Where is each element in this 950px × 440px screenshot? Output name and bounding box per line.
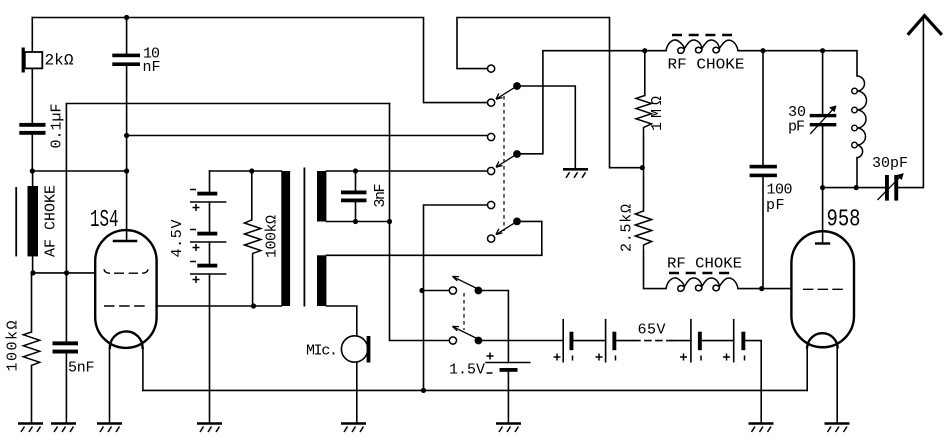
svg-text:5nF: 5nF xyxy=(68,360,95,377)
ground 100k left xyxy=(18,424,43,433)
wire secondary top rail to switch S2b xyxy=(326,170,487,172)
wire secondary top bottom rail xyxy=(326,221,389,223)
svg-text:pF: pF xyxy=(766,197,785,214)
svg-text:100kΩ: 100kΩ xyxy=(5,321,22,372)
switch gang dashed link xyxy=(503,96,505,231)
node E junction xyxy=(124,168,129,173)
battery 1.5V xyxy=(485,353,530,374)
svg-text:pF: pF xyxy=(788,119,805,136)
battery 65V cell1 xyxy=(554,319,574,363)
node bottom rail junction xyxy=(421,388,426,393)
wire 958 filament left leg xyxy=(806,348,808,391)
microphone xyxy=(341,336,370,363)
switch S1 contact a xyxy=(488,65,495,72)
capacitor C-3nF xyxy=(341,191,367,203)
node B junction xyxy=(30,270,35,275)
ground 958 filament xyxy=(825,424,850,433)
wire pole A to 1.5V battery xyxy=(482,291,508,363)
wire choke1 right rail xyxy=(738,51,857,76)
wire 1S4 filament left leg xyxy=(109,348,111,424)
wire node C to C-5nF xyxy=(65,273,67,341)
switch S2 contact a xyxy=(488,133,495,140)
switch S1 contact b xyxy=(488,99,495,106)
capacitor C-5nF xyxy=(53,341,79,353)
wire 4.5V battery top xyxy=(209,171,211,192)
switch S4 lever xyxy=(452,276,478,289)
svg-text:30pF: 30pF xyxy=(872,155,908,172)
svg-text:100: 100 xyxy=(767,182,793,199)
wire battery cell links xyxy=(209,202,211,306)
wire rail y171 battery to transformer xyxy=(210,170,282,172)
inductor tank coil xyxy=(852,76,867,158)
wire plate rail to trimmer xyxy=(823,187,885,189)
node 3nF bottom junction xyxy=(353,219,358,224)
ground 1.5V battery xyxy=(496,424,521,433)
wire 30pF var leads xyxy=(822,51,824,188)
node 958 grid junction xyxy=(759,286,764,291)
wire R-100k to ground xyxy=(31,365,33,423)
svg-text:1.5V: 1.5V xyxy=(449,362,485,379)
wire earphone to C-0.1uF xyxy=(31,68,33,122)
svg-text:RF CHOKE: RF CHOKE xyxy=(667,256,742,273)
wire 1.5V battery to ground xyxy=(507,372,509,424)
node 1M bottom junction xyxy=(640,165,645,170)
svg-text:1S4: 1S4 xyxy=(90,207,119,234)
wire rail 0.1uF-10nF xyxy=(32,170,126,172)
wire pole B to 65V battery xyxy=(482,340,563,342)
svg-text:4.5V: 4.5V xyxy=(169,220,186,258)
inductor RF choke 1 xyxy=(666,35,738,53)
wire 65V right to ground xyxy=(743,341,761,424)
switch S5 contact xyxy=(449,337,456,344)
wire choke2 right to 958 grid xyxy=(738,288,792,290)
resistor R-100k 2 xyxy=(244,220,260,258)
resistor R-1M xyxy=(636,96,652,131)
node 10nF top junction xyxy=(124,15,129,20)
switch S5 common xyxy=(475,337,483,345)
node D junction xyxy=(124,133,129,138)
switch S1 common xyxy=(513,82,521,90)
wire grid2 rail xyxy=(156,305,281,307)
battery 65V cell4 xyxy=(723,319,745,363)
svg-text:3nF: 3nF xyxy=(372,184,389,208)
wire switch dot2 up-over xyxy=(521,51,666,154)
wire switch dot1 to ground stub xyxy=(521,86,576,168)
wire rail y135 to switch contact S2a xyxy=(127,135,488,137)
node bus junction xyxy=(387,219,392,224)
switch S3 contact a xyxy=(488,201,495,208)
wire C-5nF to ground xyxy=(65,354,67,424)
node plate rail left junction xyxy=(820,185,825,190)
switch S3 common xyxy=(513,218,521,226)
switch S4 contact xyxy=(449,287,456,294)
capacitor trimmer 30pF xyxy=(878,173,904,201)
wire 2.5k leads xyxy=(644,168,667,289)
switch S2 contact b xyxy=(488,167,495,174)
wire pole A left xyxy=(424,290,450,292)
switch S2 lever xyxy=(496,154,517,167)
node 30pF top junction xyxy=(820,48,825,53)
capacitor C-10nF xyxy=(112,54,140,66)
wire mic to ground xyxy=(356,362,358,423)
wire node B to R-100k left xyxy=(31,273,33,332)
ground battery 4.5V xyxy=(197,424,222,433)
wire 65V dashed middle xyxy=(634,340,672,342)
resistor R-2.5k xyxy=(635,211,651,252)
switch S2 common xyxy=(513,150,521,158)
capacitor C-0.1uF xyxy=(19,123,45,135)
svg-text:nF: nF xyxy=(143,59,161,76)
svg-text:2.5kΩ: 2.5kΩ xyxy=(619,204,636,252)
svg-text:0.1µF: 0.1µF xyxy=(49,104,66,149)
node 100pF top junction xyxy=(760,48,765,53)
ground 5nF xyxy=(51,424,76,433)
switch S5 lever xyxy=(452,326,478,339)
svg-text:958: 958 xyxy=(827,207,861,234)
wire mid rail y103 xyxy=(66,104,389,273)
svg-text:RF CHOKE: RF CHOKE xyxy=(668,57,745,74)
node A junction xyxy=(30,168,35,173)
tube 958 xyxy=(791,231,854,347)
switch S4 common xyxy=(475,287,483,295)
battery 65V cell3 xyxy=(680,319,702,363)
wire bottom filament rail xyxy=(143,389,807,391)
capacitor C-100pF xyxy=(750,165,777,177)
node coil bottom junction xyxy=(854,185,859,190)
wire earphone drop xyxy=(31,18,33,53)
wire 65V cell links xyxy=(571,340,733,342)
node C junction xyxy=(64,270,69,275)
wire 10nF top xyxy=(126,18,128,54)
wire coil bottom xyxy=(856,158,858,188)
wire secondary bottom top rail xyxy=(326,221,541,255)
wire 3nF leads xyxy=(355,171,357,222)
earphone 2kOhm xyxy=(22,48,43,73)
wire top rail to switch S1b xyxy=(457,18,642,168)
node R-100k2 top junction xyxy=(249,168,254,173)
ground 65V battery xyxy=(749,424,774,433)
svg-text:1MΩ: 1MΩ xyxy=(649,96,666,131)
wire 1S4 filament right leg xyxy=(142,348,144,390)
wire 10nF down to 1S4 plate xyxy=(126,66,128,241)
wire circle5 drop xyxy=(424,205,488,390)
wire node A to AF choke xyxy=(32,171,34,186)
wire 958 filament right leg xyxy=(836,348,838,424)
transformer T1 xyxy=(281,168,326,307)
wire 100pF leads xyxy=(762,51,764,289)
svg-text:MIc.: MIc. xyxy=(306,343,338,360)
wire 958 plate lead xyxy=(822,188,824,244)
battery 65V cell2 xyxy=(596,319,617,363)
switch S3 lever xyxy=(496,222,517,235)
wire battery bottom to ground xyxy=(209,306,211,424)
svg-text:65V: 65V xyxy=(638,322,666,339)
tube 1S4 xyxy=(95,230,156,348)
svg-text:2kΩ: 2kΩ xyxy=(45,52,74,70)
wire trimmer to antenna xyxy=(898,16,923,188)
antenna xyxy=(908,16,942,35)
capacitor C-30pF variable xyxy=(810,105,837,133)
resistor R-100k left xyxy=(23,332,39,365)
node 1M top junction xyxy=(642,48,647,53)
wire AF choke to node B xyxy=(32,256,34,273)
ground mic xyxy=(341,424,366,433)
wire C-0.1uF to node A xyxy=(31,135,33,171)
switch S1 lever xyxy=(496,86,517,99)
inductor AF choke xyxy=(16,186,38,256)
wire secondary bottom to mic xyxy=(326,306,356,336)
ground switch S1 xyxy=(563,169,588,178)
node pole A junction xyxy=(419,288,424,293)
wire 1M leads xyxy=(644,51,645,168)
node 3nF top junction xyxy=(353,168,358,173)
ground 1S4 filament xyxy=(97,424,122,433)
wire top-left rail xyxy=(32,18,487,103)
inductor RF choke 2 xyxy=(666,273,738,291)
switch S4-S5 gang dashed link xyxy=(463,293,465,330)
node R-100k2 bottom junction xyxy=(251,303,256,308)
wire grid1 rail xyxy=(33,272,95,274)
wire bus x389 xyxy=(390,104,450,341)
svg-text:100kΩ: 100kΩ xyxy=(264,215,281,258)
battery 4.5V xyxy=(190,190,226,284)
switch S3 contact b xyxy=(488,235,495,242)
svg-text:AF CHOKE: AF CHOKE xyxy=(43,185,60,257)
wire R-100k2 leads xyxy=(251,171,254,306)
